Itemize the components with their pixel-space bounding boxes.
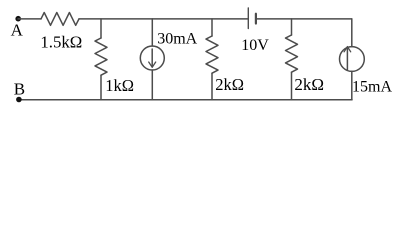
svg-text:2kΩ: 2kΩ [294,75,324,94]
wire R1 to battery [79,18,248,20]
wire A to resistor R1 [18,18,41,20]
svg-text:B: B [14,79,25,98]
svg-text:2kΩ: 2kΩ [215,75,244,94]
current source I2 arrow up [346,47,348,70]
branch 2k second: top wire [291,19,293,35]
branch 1k: bottom wire [100,75,102,100]
branch 1k: top wire [100,19,102,38]
wire bottom [19,99,352,101]
svg-text:15mA: 15mA [352,79,392,96]
current source I1 arrow down [151,49,153,67]
current source I2 15mA circle [340,47,365,72]
current source I1 30mA circle [140,46,164,70]
branch 15mA: bottom wire [351,71,353,100]
battery V1 long plate [247,8,249,29]
battery V1 short plate [255,14,257,24]
resistor R3 2k vertical [206,36,218,73]
node A [15,16,21,22]
svg-text:1.5kΩ: 1.5kΩ [40,32,82,51]
branch 2k second: bottom wire [291,72,293,100]
resistor R1 1.5k horizontal [41,12,79,25]
branch 2k first: bottom wire [211,73,213,100]
branch 15mA: top wire [351,19,353,47]
svg-text:30mA: 30mA [157,31,197,48]
svg-text:A: A [11,21,24,40]
node B [16,97,22,103]
branch 30mA: bottom wire [151,70,153,100]
wire battery to right edge [256,18,352,20]
branch 2k first: top wire [211,19,213,36]
branch 30mA: top wire [151,19,153,46]
resistor R2 1k vertical [95,38,107,75]
resistor R4 2k vertical [286,35,298,72]
svg-text:10V: 10V [241,37,269,54]
svg-text:1kΩ: 1kΩ [105,76,134,95]
